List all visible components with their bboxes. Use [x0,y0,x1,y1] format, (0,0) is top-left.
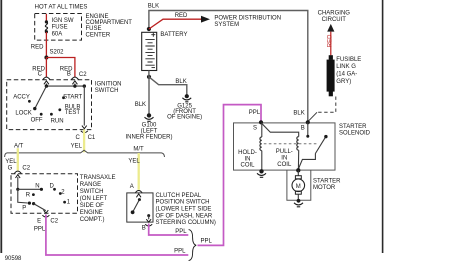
arrow power distribution [201,16,210,23]
svg-text:G: G [8,166,13,172]
motor frame [287,170,311,200]
svg-text:HOLD-: HOLD- [238,150,257,156]
svg-text:COIL: COIL [240,163,255,169]
contact ACCY [28,100,31,103]
terminal B clutch exit [146,219,151,222]
svg-text:N: N [35,183,39,189]
svg-text:IN: IN [281,156,287,162]
svg-text:C: C [76,135,81,141]
svg-text:START: START [63,95,82,101]
wire red to power distribution [149,19,202,29]
ground solenoid [257,173,266,175]
svg-text:SOLENOID: SOLENOID [339,130,371,136]
svg-text:IGN SW: IGN SW [52,18,74,24]
contact 1 [63,201,66,204]
svg-text:BLK: BLK [293,110,304,116]
svg-text:M/T: M/T [133,146,144,152]
svg-text:STARTER: STARTER [339,124,367,130]
svg-text:COMPARTMENT: COMPARTMENT [86,20,133,26]
ground G100 [147,113,151,117]
svg-text:ENGINE: ENGINE [80,210,103,216]
node B bus [73,84,76,87]
node motor feed [296,168,300,172]
svg-text:(14 GA-: (14 GA- [336,71,357,77]
terminal E transaxle exit [44,210,49,213]
svg-text:TRANSAXLE: TRANSAXLE [80,175,116,181]
svg-text:B: B [67,72,71,78]
hold-in coil [261,122,263,137]
svg-text:SYSTEM: SYSTEM [214,22,239,28]
svg-text:(ON LEFT: (ON LEFT [80,196,108,202]
node transaxle G [16,188,19,191]
wire yellow AT branch [17,148,19,170]
wire battery negative to G100 [148,77,150,114]
wire battery positive to solenoid B [149,11,308,122]
starter motor M1 [297,170,299,175]
svg-text:YEL: YEL [5,159,17,165]
contact N [40,188,43,191]
svg-text:COIL: COIL [277,162,292,168]
svg-text:OF ENGINE): OF ENGINE) [167,115,202,121]
svg-text:RUN: RUN [51,118,64,124]
terminal C ignition [43,77,50,80]
svg-text:ACCY: ACCY [13,95,30,101]
svg-text:RED: RED [175,13,188,19]
svg-text:D: D [50,183,55,189]
ignition wiper arm [35,86,47,109]
pull-in coil feed [262,124,299,137]
dashed mechanical link [264,143,318,145]
svg-text:STARTER: STARTER [313,178,341,184]
svg-text:SWITCH: SWITCH [95,88,119,94]
svg-text:RED: RED [31,44,44,50]
contact START [62,96,65,99]
svg-text:(LEFT: (LEFT [141,128,158,134]
solenoid switch arm [315,136,326,153]
node battery negative [147,75,151,79]
svg-text:BATTERY: BATTERY [160,32,187,38]
battery BAT [142,32,157,70]
node motor ground [297,199,301,203]
wire down to P [18,189,28,203]
clutch pedal position switch box [127,193,153,222]
node bus end [83,84,86,87]
terminal B ignition [71,77,78,80]
svg-text:YEL: YEL [71,144,83,150]
svg-text:BLK: BLK [148,4,159,10]
svg-text:B: B [301,125,305,131]
wire battery negative to G125 [149,77,187,95]
wire G down [17,177,19,189]
wire battery negative stub [148,71,150,77]
svg-text:R: R [26,193,31,199]
svg-text:FUSIBLE: FUSIBLE [336,57,361,63]
transaxle range switch dashed box [11,174,78,213]
svg-text:LINK G: LINK G [336,64,356,70]
svg-text:FUSE: FUSE [86,26,102,32]
svg-text:(LOWER LEFT SIDE: (LOWER LEFT SIDE [156,207,212,213]
node battery positive [147,27,151,31]
svg-text:POWER DISTRIBUTION: POWER DISTRIBUTION [214,16,281,22]
ignition switch dashed box [7,80,92,130]
node hold-in ground [259,169,263,173]
wire ignition bus [46,85,84,87]
contact OFF [40,113,43,116]
svg-text:E: E [37,218,41,224]
fuse box (engine compartment fuse center) dashed box [35,14,82,41]
svg-text:S: S [253,125,257,131]
svg-text:C2: C2 [50,218,58,224]
svg-text:C: C [38,72,43,78]
clutch contact B [147,214,150,217]
transaxle wiper to E [34,204,46,211]
wire red fuse top [45,14,47,21]
svg-text:HOT AT ALL TIMES: HOT AT ALL TIMES [35,4,88,10]
svg-text:OFF: OFF [31,118,43,124]
contact R [32,193,35,196]
arrow charging circuit [327,24,334,32]
svg-text:C2: C2 [79,72,87,78]
pull-in coil [297,137,299,151]
ground G125 [185,94,189,98]
terminal G transaxle [14,171,21,173]
svg-text:POSITION SWITCH: POSITION SWITCH [156,200,210,206]
left page border [0,0,2,253]
node B [306,120,310,124]
wire purple clutch B down right [149,224,189,236]
wire purple E down and right [46,215,188,256]
wire B into bus [74,84,76,87]
node S [259,120,263,124]
wire red S202 to B [46,58,75,78]
wire yellow C1 down [83,130,85,153]
harness split bus [5,150,165,157]
svg-text:B: B [142,225,146,231]
contact BULB TEST [58,108,61,111]
svg-text:RANGE: RANGE [80,182,101,188]
wire dashed fusible link to B [317,97,336,113]
wire clutch B to exit [148,216,150,220]
svg-text:M: M [296,184,301,190]
right page border [382,0,384,253]
clutch switch arm [133,200,140,213]
svg-text:LOCK: LOCK [15,110,31,116]
svg-text:MOTOR: MOTOR [313,185,336,191]
svg-text:PULL-: PULL- [276,149,293,155]
contact D [53,188,56,191]
svg-text:PPL: PPL [175,229,187,235]
svg-text:COMPT.): COMPT.) [80,217,105,223]
svg-text:PPL: PPL [174,249,186,255]
wire purple merged to solenoid S [198,105,262,246]
svg-text:INNER FENDER): INNER FENDER) [125,135,172,141]
svg-text:P: P [22,206,26,212]
wire C into bus [45,84,47,87]
svg-text:GRY): GRY) [336,79,351,85]
svg-text:IN: IN [245,156,251,162]
svg-text:RED: RED [328,34,334,47]
svg-text:YEL: YEL [128,159,140,165]
contact P1 [28,202,31,205]
wire B to contact [307,122,309,136]
starter solenoid box [234,123,336,170]
svg-text:STEERING COLUMN): STEERING COLUMN) [156,220,216,226]
svg-text:S202: S202 [50,50,65,56]
svg-text:C2: C2 [22,166,30,172]
svg-text:TEST: TEST [65,110,81,116]
svg-text:BLK: BLK [135,102,146,108]
svg-text:90598: 90598 [5,256,22,262]
svg-text:OF OF DASH, NEAR: OF OF DASH, NEAR [156,213,213,219]
wire yellow MT branch [138,153,140,190]
fusible link G [329,55,333,60]
wire to N [18,188,42,190]
svg-text:PPL: PPL [249,110,261,116]
svg-text:C1: C1 [88,135,96,141]
clutch contact A [138,198,141,201]
brace merge [189,230,197,261]
svg-text:PPL: PPL [34,226,46,232]
contact 2 [59,192,62,195]
svg-text:ENGINE: ENGINE [86,14,109,20]
node C bus [45,84,48,87]
svg-text:CLUTCH PEDAL: CLUTCH PEDAL [156,193,202,199]
terminal C1 exit [82,126,87,129]
fuse F IGN SW 60A [45,20,48,23]
svg-text:BLK: BLK [175,79,186,85]
wire red fusible to arrow [330,32,332,56]
svg-text:CIRCUIT: CIRCUIT [322,17,347,23]
wire switch to motor node [298,154,315,169]
terminal A clutch [135,190,142,192]
svg-text:SWITCH: SWITCH [80,189,104,195]
svg-text:CHARGING: CHARGING [318,11,351,17]
wire start feed down [83,86,85,126]
svg-text:CENTER: CENTER [86,32,111,38]
contact P2 [32,202,35,205]
contact RUN [50,113,53,116]
svg-text:PPL: PPL [201,239,213,245]
svg-text:IGNITION: IGNITION [95,81,122,87]
svg-text:60A: 60A [52,32,63,38]
splice S202 [44,56,48,60]
ground starter motor [294,203,303,205]
wire red fuse to S202 [45,32,47,58]
svg-text:FUSE: FUSE [52,25,68,31]
svg-text:SIDE OF: SIDE OF [80,203,104,209]
svg-text:A: A [130,184,134,190]
wire red S202 to C [45,58,47,78]
